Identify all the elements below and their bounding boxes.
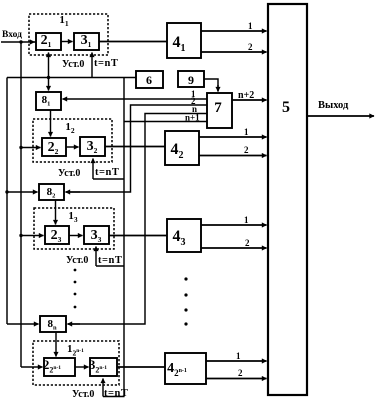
- svg-text:13: 13: [68, 210, 78, 224]
- svg-text:11: 11: [59, 14, 69, 28]
- svg-text:n+2: n+2: [238, 90, 254, 101]
- svg-text:7: 7: [214, 100, 222, 116]
- svg-text:12: 12: [65, 121, 75, 135]
- svg-text:2: 2: [238, 368, 243, 378]
- svg-text:t=nT: t=nT: [94, 58, 118, 69]
- svg-text:5: 5: [282, 99, 290, 116]
- svg-text:Уст.0: Уст.0: [62, 59, 84, 70]
- svg-text:Уст.0: Уст.0: [58, 168, 80, 179]
- svg-text:1: 1: [244, 127, 249, 137]
- svg-text:t=nT: t=nT: [95, 167, 119, 178]
- svg-text:Вход: Вход: [2, 30, 22, 40]
- svg-text:n+1: n+1: [185, 113, 200, 123]
- svg-text:6: 6: [146, 73, 152, 87]
- svg-text:1: 1: [244, 215, 249, 225]
- svg-text:9: 9: [188, 73, 194, 87]
- svg-text:2: 2: [244, 145, 249, 155]
- svg-text:12n-1: 12n-1: [67, 343, 84, 358]
- svg-text:1: 1: [248, 21, 253, 31]
- svg-text:2: 2: [248, 42, 253, 52]
- svg-text:2: 2: [245, 238, 250, 248]
- svg-text:t=nT: t=nT: [98, 255, 122, 266]
- svg-text:Выход: Выход: [318, 100, 349, 111]
- svg-text:Уст.0: Уст.0: [72, 389, 94, 400]
- svg-text:Уст.0: Уст.0: [66, 255, 88, 266]
- svg-text:t=nT: t=nT: [104, 388, 128, 399]
- svg-text:1: 1: [236, 351, 241, 361]
